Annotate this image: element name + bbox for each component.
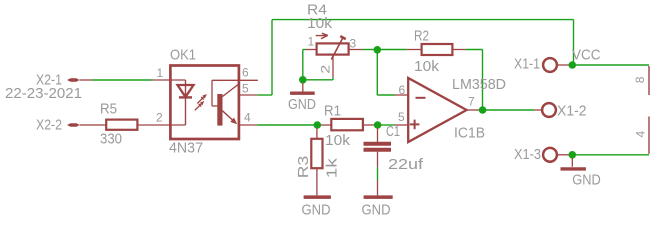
svg-text:2: 2	[156, 111, 163, 125]
wire output to X1-2	[479, 109, 535, 111]
wire VCC to op-amp pin 8	[572, 64, 649, 66]
junction R1 right node	[374, 121, 382, 129]
svg-text:4N37: 4N37	[169, 140, 203, 156]
svg-text:2: 2	[318, 64, 332, 73]
wire R4 pin1 down to GND node	[303, 50, 306, 80]
resistor R2 10k	[407, 28, 466, 75]
wire X2-1 to OK1 pin 1	[92, 79, 152, 81]
OK1 pin 4 lead	[239, 111, 257, 126]
svg-text:GND: GND	[572, 172, 601, 188]
OK1 phototransistor	[212, 80, 258, 125]
op-amp pin 7 output	[467, 95, 479, 111]
wire R4 wiper to GND node	[303, 78, 333, 80]
connector pin X1-1	[514, 57, 570, 73]
svg-text:LM358D: LM358D	[452, 77, 506, 93]
ground GND under C1	[362, 180, 393, 219]
OK1 pin 5 lead	[239, 82, 257, 96]
svg-text:5: 5	[242, 82, 249, 96]
svg-text:22-23-2021: 22-23-2021	[5, 86, 82, 102]
svg-text:4: 4	[634, 131, 648, 138]
svg-text:10k: 10k	[307, 16, 333, 32]
svg-text:GND: GND	[362, 203, 391, 219]
junction at R4 GND node	[299, 76, 307, 84]
svg-text:R1: R1	[324, 103, 341, 119]
svg-text:7: 7	[468, 95, 475, 109]
connector pin X2-2	[36, 117, 91, 133]
svg-text:22uf: 22uf	[388, 157, 423, 173]
junction node A	[374, 46, 382, 54]
potentiometer R4 10k	[307, 3, 349, 60]
wire OK1 pin4 to R1/R3 node	[257, 124, 317, 126]
op-amp pin 6	[395, 83, 409, 97]
svg-text:1: 1	[308, 35, 315, 49]
ground GND at X1-3	[561, 158, 601, 188]
wire R2 to output node	[466, 50, 483, 111]
op-amp U1 IC1B LM358D	[408, 77, 506, 142]
svg-text:X1-3: X1-3	[514, 147, 541, 163]
resistor R3 1k	[296, 128, 341, 195]
svg-text:4: 4	[244, 111, 251, 125]
wire R4 pin3 to node A	[362, 49, 374, 51]
svg-text:330: 330	[100, 132, 122, 148]
svg-text:6: 6	[242, 66, 249, 80]
svg-text:X2-2: X2-2	[36, 117, 62, 133]
wire node A down to op-amp pin6	[377, 50, 394, 95]
wire OK1 pin5 to VCC top rail	[257, 20, 573, 95]
svg-text:10k: 10k	[414, 59, 440, 75]
svg-text:C1: C1	[386, 124, 400, 140]
svg-text:GND: GND	[288, 97, 316, 113]
junction R1 left node	[314, 121, 322, 129]
OK1 light arrows	[195, 94, 207, 110]
svg-text:6: 6	[399, 83, 406, 97]
wire node A to R2	[380, 49, 407, 51]
wire R5 to OK1 pin 2	[137, 124, 185, 126]
svg-text:10k: 10k	[325, 133, 351, 149]
R4 pin 2 wiper lead	[318, 55, 333, 78]
svg-text:X1-1: X1-1	[514, 57, 540, 73]
svg-text:R2: R2	[414, 28, 429, 44]
resistor R1 10k	[320, 103, 374, 149]
svg-text:R5: R5	[100, 101, 117, 117]
ground GND under R3	[302, 197, 331, 218]
optocoupler OK1 4N37 body	[169, 48, 239, 157]
svg-text:VCC: VCC	[572, 47, 601, 63]
connector pin X1-3	[514, 147, 569, 163]
svg-text:8: 8	[633, 76, 647, 83]
junction VCC node	[569, 61, 577, 69]
svg-text:5: 5	[398, 110, 405, 124]
svg-text:1: 1	[157, 66, 164, 80]
junction X1-3 GND node	[569, 151, 577, 159]
connector pin X2-1	[36, 73, 92, 89]
svg-text:GND: GND	[302, 203, 331, 219]
op-amp power pin 8	[633, 66, 649, 95]
svg-text:R3: R3	[296, 156, 312, 179]
svg-text:3: 3	[350, 37, 357, 51]
wire node to op-amp pin5	[381, 124, 395, 126]
wire C1 to GND	[377, 167, 379, 180]
op-amp power pin 4	[634, 117, 649, 154]
wire X1-3 to op-amp pin 4	[572, 154, 649, 156]
svg-text:1k: 1k	[325, 157, 341, 178]
junction output node	[479, 106, 487, 114]
svg-text:IC1B: IC1B	[454, 126, 485, 142]
svg-text:X1-2: X1-2	[557, 104, 587, 120]
connector pin X1-2	[535, 103, 587, 119]
OK1 internal LED	[178, 80, 194, 125]
resistor R5 330	[91, 101, 137, 147]
R4 pin 1	[306, 35, 317, 50]
capacitor C1 22uf	[364, 124, 424, 173]
OK1 pin 1 lead	[153, 66, 186, 80]
R4 pin 3	[349, 37, 362, 51]
op-amp pin 5	[395, 110, 409, 125]
svg-text:OK1: OK1	[170, 48, 196, 64]
ground GND under R4	[288, 83, 316, 113]
